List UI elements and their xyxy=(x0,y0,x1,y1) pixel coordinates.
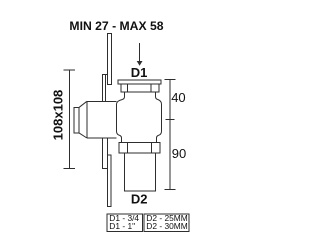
bottom nut xyxy=(119,143,160,154)
spec table boxes xyxy=(107,214,189,232)
bottom outlet pipe D2 xyxy=(125,153,156,191)
D1 arrow head xyxy=(137,61,143,66)
handle knob body rectangle xyxy=(87,101,117,138)
valve body right outline xyxy=(156,92,162,143)
right dimension line xyxy=(164,79,175,189)
top riser pipe xyxy=(108,34,112,85)
top nut xyxy=(121,84,159,92)
svg-text:40: 40 xyxy=(171,90,185,105)
bottom nut facet lines xyxy=(128,143,152,154)
wall plate 108x108 edge-on, lower part xyxy=(103,138,108,168)
bottom riser pipe xyxy=(107,155,111,207)
left dimension line 108x108 xyxy=(64,70,76,169)
top nut facet lines xyxy=(128,84,151,92)
svg-text:90: 90 xyxy=(172,146,186,161)
D1 arrow shaft xyxy=(139,43,141,62)
svg-text:108x108: 108x108 xyxy=(51,90,66,141)
handle knob taper xyxy=(79,101,87,138)
svg-text:D1 - 1": D1 - 1" xyxy=(109,221,135,231)
handle knob small end xyxy=(74,107,79,133)
top flange D1 xyxy=(118,80,161,84)
svg-text:D2: D2 xyxy=(131,192,148,207)
wall plate 108x108 edge-on, upper part xyxy=(103,74,108,101)
svg-text:MIN 27 - MAX 58: MIN 27 - MAX 58 xyxy=(69,19,163,33)
svg-text:D1: D1 xyxy=(131,65,148,80)
svg-text:D2 - 30MM: D2 - 30MM xyxy=(146,221,187,231)
valve body left outline xyxy=(117,92,125,143)
